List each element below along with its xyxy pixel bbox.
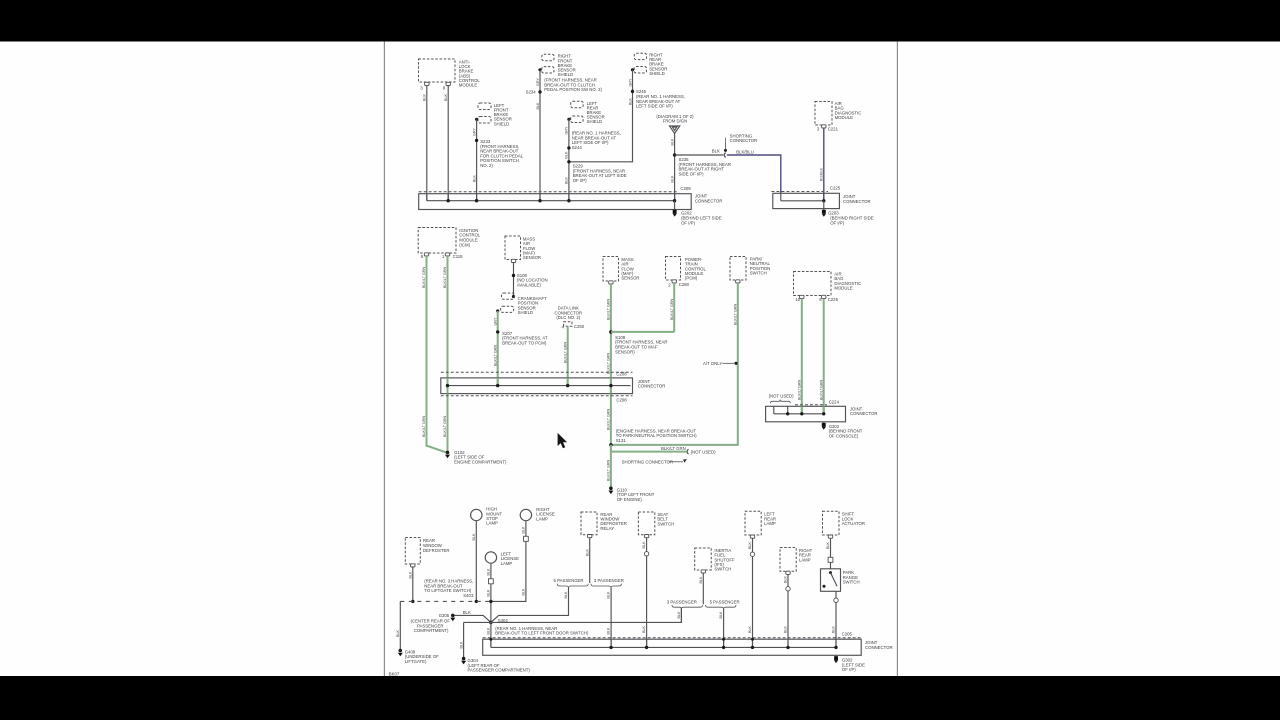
left front brake sensor shield connector [478, 103, 491, 110]
splice S229 [567, 160, 570, 163]
svg-text:CONNECTOR: CONNECTOR [730, 138, 758, 143]
rear window defroster [405, 538, 420, 565]
svg-text:3 PASSENGER: 3 PASSENGER [594, 578, 624, 583]
svg-text:MODULE: MODULE [835, 115, 854, 120]
svg-text:C205: C205 [842, 632, 853, 637]
svg-text:C280: C280 [679, 282, 690, 287]
svg-text:OF I/P): OF I/P) [830, 220, 844, 225]
svg-text:BLK/BLU: BLK/BLU [736, 149, 754, 154]
svg-text:C209: C209 [680, 186, 691, 191]
svg-text:G305: G305 [439, 613, 450, 618]
wire defroster relay BLK [589, 538, 591, 584]
svg-text:LAMP: LAMP [536, 516, 548, 521]
svg-text:C208: C208 [616, 397, 627, 402]
wire S131 shorting stub BLK/LT GRN [611, 445, 686, 452]
wire stop lamp BLK [475, 521, 477, 602]
wire park range to bus BLK [835, 591, 837, 647]
svg-text:SWITCH: SWITCH [750, 271, 767, 276]
ground G202 [674, 201, 676, 210]
svg-text:BLK: BLK [585, 548, 589, 556]
high mount stop lamp [471, 509, 482, 520]
svg-text:LEFT SIDE OF I/P): LEFT SIDE OF I/P) [636, 104, 673, 109]
wire DLC BLK/LT GRN to C208 [567, 326, 569, 385]
wire IFS BLK [702, 573, 704, 605]
splice S233 [475, 139, 478, 142]
svg-text:PEDAL POSITION SW NO. 2): PEDAL POSITION SW NO. 2) [544, 87, 602, 92]
svg-text:BLK/LTGRN: BLK/LTGRN [819, 379, 823, 400]
wire right license BLK [491, 521, 526, 602]
svg-text:C225: C225 [830, 185, 841, 190]
air bag diagnostic module 2 [794, 272, 832, 296]
svg-text:BLK/LT GRN: BLK/LT GRN [733, 303, 737, 325]
svg-text:BLK: BLK [699, 576, 703, 584]
svg-text:CONNECTOR: CONNECTOR [865, 645, 893, 650]
svg-text:CONNECTOR: CONNECTOR [850, 411, 878, 416]
svg-text:LAMP: LAMP [764, 521, 776, 526]
right page border [896, 42, 898, 677]
mass air flow sensor 1 [505, 236, 521, 260]
svg-text:BLK/LT GRN: BLK/LT GRN [607, 408, 611, 430]
svg-text:PASSENGER COMPARTMENT): PASSENGER COMPARTMENT) [468, 668, 531, 673]
ground G305 [451, 614, 455, 618]
svg-text:(ICM): (ICM) [459, 242, 470, 247]
svg-text:BLK: BLK [607, 627, 611, 635]
shorting connector callout [725, 138, 727, 149]
wire IFS 5-passenger to bus [723, 609, 725, 647]
wire G305 to S402 [455, 615, 491, 622]
svg-text:SHORTING CONNECTOR: SHORTING CONNECTOR [622, 459, 673, 464]
splice S108 (no location) [512, 274, 515, 277]
svg-text:GRY: GRY [628, 78, 632, 86]
splice S402 [489, 621, 493, 625]
wire PNP BLK/LT GRN to S131 [611, 283, 738, 445]
svg-text:BLK: BLK [463, 610, 471, 615]
svg-text:ENGINE COMPARTMENT): ENGINE COMPARTMENT) [454, 460, 507, 465]
joint connector C209 [419, 191, 678, 193]
air bag diagnostic module [815, 102, 832, 126]
svg-text:LAMP: LAMP [486, 521, 498, 526]
seat belt switch [638, 512, 654, 535]
wire air bag pin10 BLK/LT GRN [801, 299, 803, 414]
splice S207 [496, 330, 499, 333]
svg-text:BLK: BLK [564, 591, 568, 599]
svg-text:BLK: BLK [677, 611, 681, 619]
wire air bag to joint connector BU/BLK [823, 128, 825, 201]
svg-text:BLK: BLK [522, 526, 526, 534]
ABS control module (anti-lock brake) [419, 59, 456, 82]
svg-text:C224: C224 [829, 400, 840, 405]
node shield LR [567, 118, 570, 121]
svg-text:RELAY: RELAY [600, 526, 614, 531]
joint connector C225 [772, 191, 829, 193]
svg-text:S244: S244 [572, 145, 583, 150]
joint connector bottom [483, 637, 862, 639]
svg-text:BLK/LT GRN: BLK/LT GRN [422, 266, 426, 288]
node shield CKP [496, 309, 499, 312]
joint connector C208 [441, 371, 633, 373]
svg-text:OF I/P): OF I/P) [681, 220, 695, 225]
node shield LF [475, 118, 478, 121]
wire S402 to G304 and IFS 3-passenger [464, 608, 682, 623]
wire ABS pin8 BLK [447, 86, 449, 201]
wire S108 to PCM [611, 331, 674, 333]
ignition control module ICM [418, 228, 456, 254]
svg-text:BLK: BLK [642, 625, 646, 633]
svg-text:SWITCH: SWITCH [714, 567, 731, 572]
svg-text:SHIELD: SHIELD [649, 71, 665, 76]
ground G302 behind console [823, 422, 825, 423]
wire MAF2 BLK/LT GRN [610, 284, 612, 445]
mass air flow sensor 2 [603, 257, 619, 282]
wire off-page to bus BLK [674, 134, 676, 201]
svg-text:BLK: BLK [536, 102, 540, 110]
wire right rear lamp BLK [787, 574, 789, 647]
svg-text:COMPARTMENT): COMPARTMENT) [414, 628, 449, 633]
svg-text:LAMP: LAMP [501, 561, 513, 566]
svg-text:SENSOR: SENSOR [523, 255, 541, 260]
svg-text:NO. 2): NO. 2) [480, 163, 493, 168]
svg-text:BU/BLK: BU/BLK [819, 167, 823, 181]
svg-text:CONNECTOR: CONNECTOR [843, 199, 871, 204]
ground G102 [446, 451, 450, 455]
svg-text:DEFROSTER: DEFROSTER [423, 548, 450, 553]
svg-text:MODULE: MODULE [459, 83, 478, 88]
ground G408 [399, 649, 403, 653]
left rear brake sensor shield connector [571, 101, 583, 108]
svg-text:BLK/LT GRN: BLK/LT GRN [563, 341, 567, 363]
svg-text:SHIELD: SHIELD [587, 119, 603, 124]
svg-text:BK07: BK07 [389, 672, 400, 677]
svg-text:SHIELD: SHIELD [494, 121, 510, 126]
svg-text:(NOT USED): (NOT USED) [769, 394, 795, 399]
svg-text:BLK: BLK [670, 138, 674, 146]
left license lamp [485, 552, 496, 563]
svg-text:C118: C118 [453, 254, 464, 259]
svg-text:GRY: GRY [493, 317, 497, 325]
node shield RR [631, 68, 634, 71]
svg-text:BLK: BLK [748, 625, 752, 633]
right license lamp [520, 509, 531, 520]
svg-text:OF I/P): OF I/P) [573, 178, 587, 183]
wire shift lock BLK [830, 538, 832, 569]
svg-text:BLK/LTGRN: BLK/LTGRN [797, 379, 801, 400]
wire RF shield to bus [539, 70, 541, 201]
svg-text:BLK: BLK [444, 93, 448, 101]
svg-text:BLK: BLK [607, 591, 611, 599]
wire RR shield down to S229 [571, 70, 633, 162]
wire defroster BLK [412, 567, 414, 602]
svg-text:BLK: BLK [487, 568, 491, 576]
wire LR shield to bus [568, 119, 570, 200]
svg-text:10: 10 [795, 297, 800, 302]
svg-text:BLK: BLK [719, 611, 723, 619]
svg-text:BREAK-OUT TO PCM): BREAK-OUT TO PCM) [502, 341, 547, 346]
svg-text:SHIELD: SHIELD [518, 310, 534, 315]
svg-text:BLK: BLK [565, 176, 569, 184]
svg-text:S131: S131 [616, 438, 627, 443]
svg-text:FROM D/GN: FROM D/GN [663, 119, 688, 124]
svg-text:BLK/LT GRN: BLK/LT GRN [607, 459, 611, 481]
svg-text:SENSOR): SENSOR) [615, 349, 635, 354]
svg-text:BLK: BLK [826, 541, 830, 549]
wire seat belt BLK [646, 538, 648, 648]
ground G110 [609, 487, 613, 491]
svg-text:OF I/P): OF I/P) [842, 667, 856, 672]
svg-text:BLK/LT GRN: BLK/LT GRN [422, 415, 426, 437]
svg-text:BLK/LT GRN: BLK/LT GRN [607, 352, 611, 374]
crankshaft position sensor shield [512, 295, 515, 298]
ground G203 [823, 201, 825, 210]
svg-text:SIDE OF I/P): SIDE OF I/P) [679, 171, 705, 176]
svg-text:BLK/LT GRN: BLK/LT GRN [670, 298, 674, 320]
svg-text:BLK: BLK [784, 625, 788, 633]
svg-text:GRY: GRY [536, 78, 540, 86]
inline shorting connector [724, 153, 726, 158]
svg-text:BLK: BLK [423, 93, 427, 101]
svg-text:S234: S234 [526, 90, 537, 95]
svg-text:C250: C250 [574, 324, 585, 329]
splice S245 [631, 90, 634, 93]
svg-text:BLK: BLK [487, 589, 491, 597]
svg-text:SWITCH: SWITCH [657, 521, 674, 526]
svg-text:CONNECTOR: CONNECTOR [638, 384, 666, 389]
svg-text:S403: S403 [463, 593, 474, 598]
splice S244 [567, 146, 570, 149]
svg-text:BLK: BLK [642, 541, 646, 549]
wire S131 to G110 [610, 445, 612, 488]
wire CKP shield to C208 [497, 311, 499, 386]
splice S235 [673, 153, 676, 156]
wire S402 to bus BLK [490, 622, 492, 647]
svg-text:ACTUATOR: ACTUATOR [842, 521, 865, 526]
svg-text:BLK/LT GRN: BLK/LT GRN [607, 298, 611, 320]
svg-text:BLK: BLK [522, 588, 526, 596]
node defroster/liftgate bus [411, 600, 414, 603]
splice S234 [538, 90, 541, 93]
svg-text:BLK: BLK [712, 149, 720, 154]
svg-text:BLK: BLK [472, 533, 476, 541]
wire BLK/BLU to right joint connector [727, 155, 781, 193]
wire left rear lamp BLK [752, 538, 754, 647]
svg-text:C225: C225 [828, 297, 839, 302]
svg-text:(DLC NO. 2): (DLC NO. 2) [556, 315, 580, 320]
right rear lamp [780, 548, 796, 572]
node joints C209 [447, 199, 450, 202]
joint connector C224 [795, 404, 827, 406]
park/neutral position switch [730, 257, 746, 281]
svg-text:GRY: GRY [565, 126, 569, 134]
svg-text:LAMP: LAMP [799, 557, 811, 562]
svg-text:SHIELD: SHIELD [558, 72, 574, 77]
svg-text:BLK: BLK [628, 97, 632, 105]
wire 5-passenger to S402 [491, 588, 569, 622]
wire MAF1 BLK [513, 263, 515, 297]
svg-text:BLK/LT GRN: BLK/LT GRN [443, 415, 447, 437]
wire PCM BLK/LT GRN to S108 [673, 283, 675, 332]
svg-text:(PCM): (PCM) [685, 276, 698, 281]
wire ICM pin1 BLK/LT GRN through C208 to G102 [447, 256, 449, 452]
wire IFS 3-passenger [680, 609, 682, 622]
svg-text:SWITCH: SWITCH [843, 580, 860, 585]
ground G304 [462, 657, 466, 661]
svg-text:BLK: BLK [670, 175, 674, 183]
svg-text:(NOT USED): (NOT USED) [691, 449, 717, 454]
splice S108 [609, 330, 613, 334]
wire ABS pin3 BLK [426, 86, 428, 201]
svg-text:OF ENGINE): OF ENGINE) [617, 497, 643, 502]
node shield RF [538, 68, 541, 71]
wire to G408 [399, 601, 401, 649]
svg-text:TO PARK/NEUTRAL POSITION SWITC: TO PARK/NEUTRAL POSITION SWITCH) [616, 433, 697, 438]
left rear lamp [745, 511, 761, 535]
inertia fuel shutoff switch [695, 548, 712, 570]
wire LF shield to bus [476, 119, 478, 200]
svg-text:BLK: BLK [396, 629, 400, 637]
right rear brake sensor shield connector [634, 53, 646, 59]
svg-text:C208: C208 [616, 372, 627, 377]
ground G302 left side of I/P [835, 655, 837, 656]
liftgate harness dashed wire [400, 600, 491, 602]
svg-text:BREAK-OUT TO LEFT FRONT DOOR S: BREAK-OUT TO LEFT FRONT DOOR SWITCH) [495, 631, 589, 636]
splice S131 [609, 443, 613, 447]
svg-text:BLK/LT GRN: BLK/LT GRN [661, 446, 686, 451]
svg-text:LIFTGATE): LIFTGATE) [405, 659, 427, 664]
svg-text:BLK: BLK [565, 151, 569, 159]
svg-text:SENSOR: SENSOR [621, 276, 639, 281]
svg-text:BLK: BLK [472, 174, 476, 182]
wire left license BLK to S402 [490, 563, 492, 622]
park range switch [821, 569, 841, 592]
wire S235 to shorting connector BLK [675, 154, 724, 156]
wire ICM pin8 BLK/LT GRN to G102 [427, 256, 447, 452]
shift lock actuator [823, 511, 840, 535]
svg-text:BLK: BLK [784, 575, 788, 583]
powertrain control module PCM [666, 257, 681, 281]
svg-text:AVAILABLE): AVAILABLE) [517, 283, 542, 288]
svg-text:GRY: GRY [472, 128, 476, 136]
svg-text:BLK/LT GRN: BLK/LT GRN [443, 266, 447, 288]
wire air bag pin6 BLK/LT GRN [823, 299, 825, 414]
svg-text:5 PASSENGER: 5 PASSENGER [554, 578, 584, 583]
svg-text:MODULE: MODULE [834, 286, 853, 291]
svg-text:OF CONSOLE): OF CONSOLE) [829, 434, 859, 439]
mouse cursor [558, 433, 568, 448]
svg-text:5 PASSENGER: 5 PASSENGER [710, 599, 740, 604]
left page border [383, 42, 385, 677]
wire 3-passenger to bus [610, 588, 612, 647]
svg-text:BLK: BLK [409, 571, 413, 579]
svg-text:BLK: BLK [832, 625, 836, 633]
svg-text:3 PASSENGER: 3 PASSENGER [667, 599, 697, 604]
svg-text:BLK: BLK [487, 627, 491, 635]
right front brake sensor shield connector [542, 54, 554, 60]
svg-text:CONNECTOR: CONNECTOR [695, 198, 723, 203]
rear window defroster relay [581, 512, 597, 535]
svg-text:C221: C221 [828, 126, 839, 131]
svg-text:BLK: BLK [459, 641, 463, 649]
svg-text:A/T ONLY: A/T ONLY [703, 361, 722, 366]
svg-text:BLK: BLK [748, 541, 752, 549]
svg-text:BLK/LT GRN: BLK/LT GRN [493, 344, 497, 366]
